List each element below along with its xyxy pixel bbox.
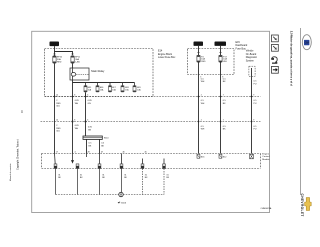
label S110 (104, 137, 110, 139)
svg-text:30: 30 (197, 42, 201, 46)
relay K1 Main Relay (70, 68, 89, 80)
wire relay down (72, 80, 74, 97)
svg-text:Lower Fuse Box: Lower Fuse Box (158, 56, 176, 59)
fuse EF9 (133, 83, 141, 93)
svg-text:2: 2 (201, 120, 202, 122)
left margin page number (21, 110, 24, 113)
pin labels above ECM top edge (56, 152, 147, 154)
svg-text:Control: Control (262, 155, 270, 158)
connector line C102 (full width dashed) (41, 121, 261, 123)
logo Chevrolet bowtie (rotated gold) (305, 198, 312, 211)
sidebar icon zoom-in (272, 35, 279, 42)
wire from splice left leg (86, 139, 88, 153)
connector line C101 (full width dashed, box E14 bottom) (45, 96, 261, 98)
svg-text:Manual de servicio: Manual de servicio (9, 163, 12, 181)
svg-text:14: 14 (56, 120, 58, 122)
svg-text:WH: WH (201, 129, 205, 131)
sidebar divider line (300, 28, 302, 195)
label wire A specs below C102 (56, 125, 61, 133)
label E14 Engine Block Lower Fuse Box (158, 50, 176, 60)
label wire B specs above C102 (75, 100, 80, 105)
svg-text:PU: PU (254, 129, 257, 131)
svg-text:8: 8 (74, 120, 75, 122)
ground bus dashed (56, 194, 165, 196)
sidebar rotated caption (289, 31, 293, 86)
ECM dashed box right edge (260, 154, 262, 169)
fuse EF7 (109, 83, 117, 93)
wire B+ stub (54, 46, 56, 51)
svg-text:45: 45 (145, 152, 147, 154)
logo CHEVROLET vertical text (300, 194, 304, 217)
terminal ECM B16 (197, 154, 205, 159)
fuse EF5 (84, 83, 92, 97)
sidebar icon next-page boxed arrow (272, 66, 279, 73)
svg-text:G103: G103 (121, 203, 127, 205)
clip terminal fuse F17 (219, 51, 222, 54)
wire hot2 stub (220, 46, 222, 55)
ECM dashed box left edge (41, 154, 43, 169)
svg-text:2.0 Motor de gasolina, puesta: 2.0 Motor de gasolina, puesta a tierra y… (289, 31, 293, 86)
label Vehicle On-Board Diagnostic System (246, 50, 258, 63)
svg-text:Copyright Chevrolet. Todos d: Copyright Chevrolet. Todos d (17, 139, 20, 170)
label wire F4 color (201, 78, 205, 83)
left margin rotated caption line 1 (17, 139, 20, 170)
terminal ECM B12 (219, 154, 227, 159)
wire ground col4 (121, 169, 123, 193)
sidebar icon zoom-out (272, 44, 279, 51)
svg-text:6: 6 (87, 120, 88, 122)
logo GM oval (302, 35, 311, 50)
node HOT label box 2 (215, 42, 227, 46)
pin digits below E15 box (200, 77, 223, 79)
terminal ground col1 (54, 164, 61, 179)
svg-text:GN: GN (88, 129, 92, 131)
svg-text:WH: WH (223, 61, 227, 63)
svg-text:WH: WH (201, 81, 205, 83)
svg-text:GN: GN (88, 103, 92, 105)
connector DLC dashed boxlet (249, 66, 255, 76)
wire splice-leg2 through ECM band (99, 154, 101, 169)
ground splice circle (119, 192, 123, 196)
label wire A specs above C102 (56, 100, 61, 108)
svg-text:PU: PU (254, 84, 257, 86)
svg-text:4: 4 (75, 152, 76, 154)
svg-text:7: 7 (223, 120, 224, 122)
svg-text:PU: PU (254, 103, 257, 105)
svg-text:RED: RED (201, 61, 206, 63)
wire ground col5 dashed (142, 169, 144, 195)
fuse box E14 dashed outline (45, 49, 154, 97)
wire A mid section (54, 97, 56, 154)
svg-text:WH: WH (75, 103, 79, 105)
label splice right leg (101, 143, 105, 148)
svg-text:WH: WH (75, 128, 79, 130)
wire F17 down (220, 62, 222, 154)
pin number labels at C102 crossings (56, 120, 254, 122)
svg-text:14: 14 (56, 95, 58, 97)
wire ground col1 (55, 169, 57, 195)
svg-text:Module: Module (262, 159, 270, 161)
svg-text:6: 6 (87, 95, 88, 97)
fuse EF8 (121, 83, 129, 93)
ECM dashed box top edge (42, 153, 261, 155)
wire col5 in ECM band (142, 159, 144, 169)
svg-text:CHEVROLET: CHEVROLET (300, 194, 304, 217)
ground G103 label with arrow (118, 202, 127, 205)
wire fuse2 to relay (72, 63, 74, 68)
label wire C specs above C102 (88, 100, 93, 105)
label Engine Control Module (262, 153, 270, 161)
ECM dashed box bottom edge (42, 168, 261, 170)
terminal ground col3 (98, 164, 105, 179)
svg-text:30: 30 (53, 42, 57, 46)
wire col6 in ECM band (163, 159, 165, 169)
svg-text:15 C: 15 C (217, 42, 224, 46)
page border frame (32, 31, 270, 212)
wire col4 in ECM band (121, 154, 123, 169)
svg-text:2: 2 (201, 95, 202, 97)
terminal ECM B27 (double) (250, 154, 254, 159)
wire DLC down (251, 76, 253, 153)
label wire DLC color (254, 81, 258, 86)
svg-text:CHM0023A: CHM0023A (261, 207, 272, 210)
fuse F17 (219, 55, 228, 63)
left margin rotated caption line 2 (9, 163, 12, 181)
label splice left leg (89, 143, 93, 148)
wire A through ECM band (55, 154, 56, 169)
terminal ground col5 (141, 164, 148, 179)
clip terminal fuse EF16 (53, 53, 56, 56)
terminal ground col6 (163, 164, 170, 179)
svg-text:RED: RED (56, 103, 61, 105)
label wire C specs below C102 (88, 127, 93, 132)
clip terminal fuse F4 (197, 51, 200, 54)
wire B arrow end (71, 154, 74, 164)
svg-text:7: 7 (223, 95, 224, 97)
svg-text:8: 8 (74, 95, 75, 97)
wire feed bus to small fuses (73, 82, 135, 84)
fuse box E15 dashed outline (188, 49, 235, 75)
svg-text:46: 46 (123, 152, 125, 154)
svg-text:L-BU: L-BU (75, 62, 80, 64)
label wire F17 below C101 (223, 100, 227, 105)
label wire F17 below C102 (223, 126, 227, 131)
wire splice-leg1 through ECM band (86, 154, 88, 158)
wire hot1 stub (198, 46, 200, 55)
terminal ground col4 (120, 164, 127, 179)
wire ground col3 (99, 169, 101, 195)
svg-text:RED: RED (57, 62, 62, 64)
fuse EF11 (71, 56, 81, 64)
svg-text:Fuse Box: Fuse Box (236, 48, 247, 51)
svg-text:RED: RED (56, 128, 61, 130)
wire C mid section (85, 92, 87, 121)
svg-text:GM: GM (305, 41, 309, 45)
label wire DLC below C101 (254, 100, 258, 105)
wire ground col2 (77, 169, 79, 195)
svg-text:Main Relay: Main Relay (91, 69, 105, 73)
sidebar icon rotate curved arrow (271, 57, 277, 64)
label wire F4 below C101 (201, 100, 205, 105)
wire F4 down (198, 62, 200, 154)
svg-text:Engine: Engine (262, 153, 270, 155)
footer document id (261, 207, 272, 210)
svg-text:17: 17 (56, 152, 58, 154)
fuse EF6 (96, 83, 104, 93)
svg-text:System: System (246, 60, 254, 63)
wire B mid section (72, 97, 74, 154)
junction dots on connector lines (54, 96, 253, 123)
label wire F17 color (223, 78, 227, 83)
fuse F4 (197, 55, 206, 63)
node HOT label box 1 (194, 42, 204, 46)
label wire F4 below C102 (201, 126, 205, 131)
node B+ label box (50, 42, 60, 47)
pin number labels at C101 crossings (56, 95, 254, 97)
svg-text:9: 9 (253, 120, 254, 122)
splice S110 bar (83, 136, 102, 139)
label wire B specs below C102 (75, 125, 80, 130)
label Main Relay (91, 69, 105, 73)
terminal ground col2 (76, 164, 83, 179)
wire from splice right leg (99, 139, 101, 153)
svg-text:WH: WH (201, 103, 205, 105)
wire fuse1 down (54, 63, 56, 96)
fuse EF16 (53, 56, 63, 64)
svg-text:28: 28 (88, 152, 90, 154)
clip terminal fuse EF11 (71, 53, 74, 56)
wire ground col6 dashed (163, 169, 165, 195)
label wire DLC below C102 (254, 126, 258, 131)
wire split to both fuses (54, 51, 73, 53)
label E15 Dashboard Fuse Box (236, 41, 248, 51)
svg-text:9: 9 (253, 95, 254, 97)
svg-text:47: 47 (101, 152, 103, 154)
